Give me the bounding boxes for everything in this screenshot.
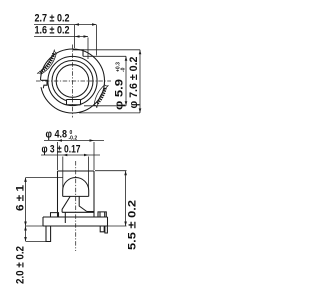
bulb tube left <box>62 191 64 197</box>
arrow 1.6 left <box>75 35 80 38</box>
svg-text:-0: -0 <box>121 67 127 72</box>
svg-text:-0.2: -0.2 <box>69 136 78 142</box>
left lug on flange <box>51 213 59 217</box>
notch 9 o'clock outline <box>41 80 47 88</box>
keyway bottom box white fill <box>67 100 80 104</box>
right lug on flange <box>98 212 106 217</box>
ext line ø5.9 bottom <box>84 105 126 107</box>
bulb dome <box>63 178 89 191</box>
right foot 1 <box>100 226 104 232</box>
notch 9 o'clock white patch <box>37 80 46 87</box>
arrow 5.5 bottom <box>124 222 127 227</box>
ext line bulb tip <box>26 176 63 178</box>
arrow 2.0 bottom <box>24 237 27 242</box>
arrow ø3 left <box>63 154 68 157</box>
arrow 6 bottom <box>24 222 27 227</box>
arrow 2.0 top <box>24 226 27 231</box>
ext line ø7.6 bottom <box>79 112 140 114</box>
bulb pinch line <box>63 195 89 197</box>
side view body right side <box>93 171 95 217</box>
dimension line 2.7 <box>34 24 97 26</box>
flange right side <box>107 217 109 226</box>
svg-text:1.6 ± 0.2: 1.6 ± 0.2 <box>35 25 70 37</box>
leaf spring upper-left outline <box>37 50 56 75</box>
centerline vertical side view <box>75 161 77 251</box>
svg-text:6 ± 1: 6 ± 1 <box>15 185 27 211</box>
dimension line ø5.9 vertical <box>125 56 127 106</box>
ext line flange bottom right <box>108 225 127 227</box>
extension line ø4.8 left <box>57 142 59 170</box>
leaf spring lower-right hatched bar <box>97 87 105 103</box>
top view outer circle (flange ø7.6) <box>41 49 105 113</box>
arrow ø5.9 bottom <box>125 101 128 106</box>
arrow ø4.8 right <box>90 139 95 142</box>
arrow ø3 right <box>84 154 89 157</box>
ext line ø5.9 top <box>83 55 126 57</box>
svg-text:5.5 ± 0.2: 5.5 ± 0.2 <box>127 200 139 250</box>
dimension line ø7.6 vertical <box>139 50 141 113</box>
terminal leg <box>46 226 51 242</box>
ext line top of flange circle to ø7.6 dim <box>84 49 140 51</box>
leaf spring lower-right outline <box>94 85 108 108</box>
leaf spring upper-left hatched bar <box>40 53 54 72</box>
side view body top <box>58 170 95 172</box>
wedge left diagonal <box>62 196 70 212</box>
dimension line 1.6 <box>34 36 88 38</box>
centerline vertical top view <box>72 45 74 118</box>
arrow ø7.6 top <box>139 50 142 55</box>
arrow 2.7 left <box>75 23 80 26</box>
extension line key mid <box>87 38 89 60</box>
arrow ø7.6 bottom <box>139 108 142 113</box>
extension line ø3 right <box>88 157 90 189</box>
dimension 5.5 line <box>125 171 127 226</box>
arrow 6 top <box>24 177 27 182</box>
ext line terminal bottom <box>26 241 46 243</box>
arrow 2.7 right <box>92 23 97 26</box>
ext line body top right <box>95 170 127 172</box>
right foot 2 <box>105 226 108 233</box>
flange left side <box>42 217 44 226</box>
dimension 2.0 line <box>25 226 27 242</box>
svg-text:φ 4.8: φ 4.8 <box>46 129 68 141</box>
dimension line ø3 <box>41 154 100 156</box>
dimension line ø4.8 <box>44 140 104 142</box>
svg-text:φ 5.9: φ 5.9 <box>114 79 126 110</box>
ext line flange bottom left <box>26 225 44 227</box>
wedge bottom right short <box>87 211 94 213</box>
key top flat <box>73 49 85 51</box>
dimension 6±1 line <box>25 177 27 226</box>
top view circle ø5.9 <box>48 56 97 105</box>
flange bottom <box>43 225 108 227</box>
svg-text:φ 7.6 ± 0.2: φ 7.6 ± 0.2 <box>128 56 140 108</box>
svg-text:2.0 ± 0.2: 2.0 ± 0.2 <box>15 246 27 284</box>
flange top <box>43 216 108 218</box>
top view circle ø4.8 <box>52 61 93 102</box>
centerline horizontal top view <box>36 80 111 82</box>
extension line ø4.8 right <box>93 142 95 170</box>
top view bore circle <box>56 65 89 98</box>
svg-text:φ 3 ± 0.17: φ 3 ± 0.17 <box>42 144 81 156</box>
arrow ø4.8 left <box>58 139 63 142</box>
extension line key left <box>74 25 76 48</box>
wedge right side <box>79 196 87 211</box>
key right edge <box>82 50 84 57</box>
arrow 1.6 right <box>84 35 89 38</box>
terminal inner vertical <box>64 212 66 223</box>
arrow ø5.9 top <box>125 56 128 61</box>
keyway bottom box <box>67 100 81 105</box>
side view body left side <box>57 171 59 217</box>
cavity bottom line <box>62 211 94 213</box>
svg-text:2.7 ± 0.2: 2.7 ± 0.2 <box>35 12 70 24</box>
arrow 5.5 top <box>124 171 127 176</box>
extension line ø3 left <box>62 157 64 189</box>
bulb tube right <box>88 191 90 197</box>
extension line key right <box>96 25 98 56</box>
